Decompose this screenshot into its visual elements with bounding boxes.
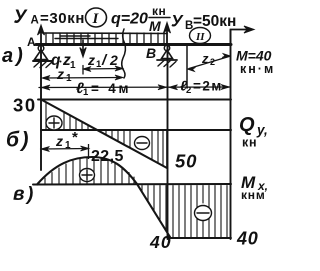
Qy plus sign circle xyxy=(46,116,62,130)
Qy zero axis xyxy=(41,129,231,131)
fraction bar of q units xyxy=(149,17,170,19)
reaction YB arrow at B xyxy=(164,23,171,45)
z1* dimension line xyxy=(41,146,89,152)
svg-text:= 4м: = 4м xyxy=(91,81,131,96)
moment M arrow at right end xyxy=(231,26,255,44)
support B base line xyxy=(157,59,177,61)
svg-text:I: I xyxy=(92,11,100,27)
distributed load q band zig-zag texture xyxy=(55,36,118,39)
Qy diagonal line +30 to -50 xyxy=(42,100,167,168)
reaction YA arrow at A xyxy=(38,25,45,46)
svg-text:Q: Q xyxy=(239,114,255,136)
Mx negative area hatch xyxy=(142,186,227,238)
svg-text:2: 2 xyxy=(109,52,118,68)
support B pin knob xyxy=(164,45,169,50)
svg-text:22,5: 22,5 xyxy=(91,148,124,165)
svg-text:б): б) xyxy=(6,129,31,152)
svg-text:z: z xyxy=(201,51,209,66)
separator horizontal line below dimensions xyxy=(38,99,231,101)
Mx minus sign circle xyxy=(195,206,212,221)
svg-text:У: У xyxy=(14,7,29,28)
z2 dimension line xyxy=(187,54,231,72)
Qy negative area hatch xyxy=(100,131,163,166)
resultant q·z1 down arrow xyxy=(80,40,86,57)
svg-text:40: 40 xyxy=(236,229,259,249)
svg-text:*: * xyxy=(72,129,78,146)
svg-text:А: А xyxy=(31,15,39,27)
Qy positive area hatch xyxy=(46,103,88,129)
svg-text:1: 1 xyxy=(83,87,89,98)
svg-text:2: 2 xyxy=(210,57,215,67)
circled section I xyxy=(86,8,107,27)
Mx positive area hatch xyxy=(45,158,134,184)
Qy drop at B xyxy=(166,130,168,168)
support B hatch xyxy=(158,61,176,68)
span dimension line l1 l2 xyxy=(39,85,230,91)
svg-text:1: 1 xyxy=(70,60,76,71)
svg-text:=50кн: =50кн xyxy=(193,13,236,30)
section I wavy cut line xyxy=(122,29,126,78)
svg-text:А: А xyxy=(27,35,36,49)
distributed load q band vertical bars xyxy=(46,33,164,44)
Mx zero axis xyxy=(33,183,231,186)
support A pin knob xyxy=(38,46,44,52)
svg-text:=30кн: =30кн xyxy=(40,10,85,27)
svg-text:50: 50 xyxy=(175,151,197,172)
svg-text:В: В xyxy=(146,45,156,61)
Qy minus sign circle xyxy=(135,137,150,150)
distributed load q band top line xyxy=(43,32,167,35)
support A base line xyxy=(33,60,52,62)
tick at Mx peak under 22,5 xyxy=(88,144,90,159)
svg-text:кн·м: кн·м xyxy=(240,62,275,76)
label q·z1 xyxy=(60,61,62,63)
svg-text:а): а) xyxy=(2,45,26,67)
svg-text:z: z xyxy=(87,52,95,68)
support A hatch xyxy=(34,62,52,68)
Mx bottom line at -40 xyxy=(170,237,231,239)
support A pin triangle xyxy=(35,50,48,60)
grid vertical below A xyxy=(40,47,42,170)
beam AB main line xyxy=(36,43,231,46)
svg-text:2: 2 xyxy=(186,85,191,96)
svg-text:q=20: q=20 xyxy=(111,11,148,28)
Mx parabola xyxy=(37,157,170,237)
svg-text:кн: кн xyxy=(152,4,166,18)
circled section II xyxy=(190,28,211,44)
Mx plus sign circle xyxy=(80,169,95,182)
svg-text:у,: у, xyxy=(256,123,268,138)
svg-text:М: М xyxy=(149,18,161,34)
svg-text:1: 1 xyxy=(65,140,71,151)
z1 dimension line xyxy=(42,75,123,81)
z1/2 dimension line xyxy=(83,66,123,75)
svg-text:=2м: =2м xyxy=(193,79,223,94)
svg-text:У: У xyxy=(171,12,184,31)
svg-text:II: II xyxy=(195,31,205,43)
svg-text:кн: кн xyxy=(242,136,257,150)
section II vertical line xyxy=(186,44,188,88)
svg-text:z: z xyxy=(55,133,63,149)
svg-text:кнм: кнм xyxy=(241,188,266,202)
svg-text:30: 30 xyxy=(13,95,37,116)
support B triangle xyxy=(162,50,173,59)
grid vertical below B xyxy=(167,46,169,239)
svg-text:z: z xyxy=(56,66,64,82)
svg-text:40: 40 xyxy=(149,232,172,252)
svg-text:1: 1 xyxy=(66,73,72,84)
grid vertical right end xyxy=(230,30,232,239)
svg-text:в): в) xyxy=(13,184,36,205)
